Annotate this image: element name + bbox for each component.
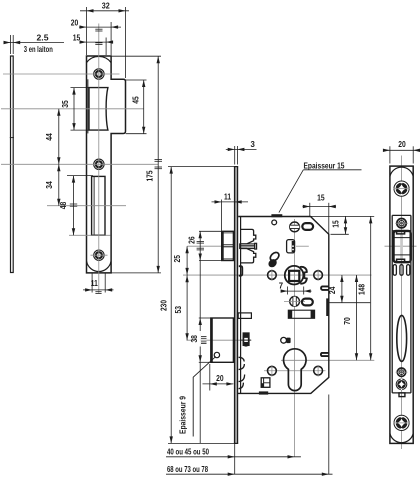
top tab (epaisseur 15 reference) <box>271 214 282 217</box>
faceplate outline <box>390 166 413 443</box>
label Epaisseur 9 with leader <box>178 357 215 437</box>
deadbolt tail parts <box>238 313 251 389</box>
svg-text:25: 25 <box>173 254 182 262</box>
label Epaisseur 15 with leader <box>279 161 362 212</box>
extension line y302.7 <box>329 302 371 304</box>
inner box <box>392 215 411 393</box>
wall slot 1 <box>326 298 329 316</box>
faceplate edge view <box>234 167 238 444</box>
deadbolt head <box>211 318 234 362</box>
slot oval 1 <box>302 223 313 230</box>
strike vertical centerline <box>95 24 102 294</box>
strike plate lip fold line <box>87 79 89 133</box>
wall spring tab <box>239 266 243 276</box>
slot oval 2 <box>302 299 313 306</box>
extension case wall down to bottom dims <box>328 395 330 475</box>
vent slot right <box>407 265 410 276</box>
cam pin (circle + block) <box>281 337 291 343</box>
dimension 7 (follower square) <box>279 282 312 295</box>
deadbolt axis (case) <box>187 337 252 344</box>
dimension 70 <box>343 275 358 360</box>
bottom tab <box>259 391 268 394</box>
dimension 2.5 (side plate thickness) <box>4 33 65 54</box>
extension line plate bottom right <box>112 272 162 274</box>
svg-text:40 ou 45 ou 50: 40 ou 45 ou 50 <box>167 448 210 457</box>
svg-text:15: 15 <box>73 33 81 42</box>
lock case body outline <box>238 217 329 394</box>
dimension 25 and 53 line <box>185 246 188 340</box>
dimension 230 line with 26 and 38 arrows <box>170 167 205 444</box>
dimension 34 <box>45 164 61 205</box>
lock case vertical centerline <box>294 219 296 457</box>
latch axis (case) <box>187 245 416 247</box>
cross-lobe screw <box>396 379 407 390</box>
svg-text:11: 11 <box>224 192 232 201</box>
extension lines latch cutout <box>71 87 90 89</box>
ring screw 2 <box>396 368 408 376</box>
phillips screw bottom <box>394 415 410 430</box>
pin below tab <box>272 220 277 225</box>
euro cylinder hole <box>284 349 307 391</box>
dimension 3 (faceplate thickness) <box>226 140 257 164</box>
bottom tab (front view) <box>399 393 405 397</box>
extension line chamfer bottom <box>331 233 349 235</box>
axis line middle hole <box>1 163 158 165</box>
svg-text:3 en laiton: 3 en laiton <box>24 45 53 54</box>
svg-text:70: 70 <box>343 317 352 325</box>
deadbolt rivet circle (leader end) <box>214 352 219 357</box>
extension lines latch head (26) <box>199 230 222 232</box>
extension faceplate down to bottom dims <box>234 443 236 474</box>
latch cutout with curved lead-in <box>89 88 108 131</box>
screw hole middle <box>94 159 104 169</box>
vent slot left <box>393 265 396 276</box>
dimension 68 ou 73 ou 78 (total depth) <box>166 465 333 476</box>
svg-text:35: 35 <box>61 100 70 108</box>
faceplate top dome <box>390 167 413 176</box>
svg-text:11: 11 <box>91 279 99 288</box>
svg-text:24: 24 <box>328 286 337 294</box>
spring pin (comma) <box>267 251 281 269</box>
dimension 11 (latch projection) <box>212 192 249 230</box>
dimension 15 (chamfer vertical) <box>332 216 348 234</box>
latch bolt head <box>222 231 234 260</box>
latch bolt front view <box>394 231 411 262</box>
svg-text:175: 175 <box>145 170 154 182</box>
ring screw (latch fixing) <box>395 219 408 228</box>
small guide rectangle <box>287 240 295 253</box>
dimension 175 (strike height) <box>145 56 162 273</box>
wall slot stadium mid <box>321 286 329 290</box>
strike plate bottom dome arc <box>87 261 111 271</box>
cylinder screw right <box>314 366 323 375</box>
extension line deadbolt cutout top <box>67 175 93 177</box>
extension line case top right <box>311 215 374 217</box>
cylinder screw left <box>268 366 277 375</box>
extension lines deadbolt (38) <box>199 317 212 319</box>
extension line faceplate top left <box>168 166 234 168</box>
bottom-left guide box <box>261 378 270 388</box>
dimension 15 (chamfer horizontal) <box>303 194 337 235</box>
dimension 20 (strike width) <box>71 18 121 55</box>
screw hole top <box>94 69 104 79</box>
wall slot stadium lower <box>321 353 329 356</box>
dimension 11 (strike bottom cutout offset) <box>83 274 114 294</box>
axis line screw hole top <box>3 73 120 75</box>
dimension 20 (deadbolt projection) <box>203 364 234 391</box>
svg-text:34: 34 <box>45 181 54 189</box>
svg-text:2.5: 2.5 <box>37 33 50 42</box>
extension line plate top right <box>112 55 162 57</box>
axis line deadbolt (strike) <box>47 205 126 207</box>
deadbolt cutout <box>92 176 105 235</box>
dimension 15 (strike) <box>73 33 113 55</box>
follower (handle hub) <box>285 266 307 285</box>
svg-text:48: 48 <box>59 201 68 209</box>
svg-text:26: 26 <box>187 236 196 244</box>
fixing hole left of follower <box>268 269 277 281</box>
gear rack bar <box>288 310 314 318</box>
svg-text:230: 230 <box>160 299 169 311</box>
extension line cutout bottom edge <box>69 234 111 236</box>
faceplate bottom dome <box>390 433 413 442</box>
axis line latch (strike) <box>1 108 144 110</box>
svg-text:148: 148 <box>357 283 366 295</box>
dimension 44 <box>45 109 61 165</box>
dimension 20 (faceplate width) <box>383 140 420 164</box>
svg-text:53: 53 <box>174 305 183 313</box>
phillips screw top <box>394 181 410 196</box>
dimension 40 ou 45 ou 50 (backset) <box>166 448 301 459</box>
extension lines lip (45) <box>126 79 147 81</box>
cylinder screws axis <box>264 370 326 372</box>
dimension 148 <box>357 216 372 360</box>
extension line faceplate bottom left <box>168 442 234 444</box>
lock case left wall <box>240 217 242 394</box>
dimension 32 <box>80 2 129 78</box>
text 38 <box>190 331 201 347</box>
vent slot middle <box>400 265 403 276</box>
svg-text:32: 32 <box>102 2 111 11</box>
fixing hole right of follower <box>314 269 323 281</box>
dimension 45 (lip height) <box>132 80 146 134</box>
svg-text:44: 44 <box>45 133 54 141</box>
faceplate centerline <box>401 156 403 450</box>
deadbolt oval slot <box>397 315 407 361</box>
dimension 48 (deadbolt cutout) <box>59 176 77 236</box>
svg-text:20: 20 <box>71 18 79 27</box>
svg-text:45: 45 <box>132 96 141 104</box>
spring capsule <box>241 334 251 346</box>
strike plate top dome arc <box>87 56 111 62</box>
screw post 1 <box>290 222 300 232</box>
svg-text:20: 20 <box>398 140 406 149</box>
screw hole bottom <box>91 250 108 260</box>
strike plate front view outline <box>87 56 126 273</box>
latch spring mechanism <box>240 229 257 263</box>
screw post 2 <box>284 297 305 307</box>
svg-text:Epaisseur 9: Epaisseur 9 <box>178 395 187 434</box>
follower axis <box>183 274 372 276</box>
svg-text:15: 15 <box>332 220 341 228</box>
svg-text:68 ou 73 ou 78: 68 ou 73 ou 78 <box>167 465 209 474</box>
svg-text:Epaisseur 15: Epaisseur 15 <box>304 161 346 170</box>
svg-text:3: 3 <box>251 140 256 149</box>
deadbolt cutout inner line <box>93 176 95 235</box>
cylinder axis <box>281 359 374 361</box>
strike plate side view (edge-on, 2.5 thick) <box>10 56 14 273</box>
svg-text:38: 38 <box>190 334 199 342</box>
dimension 35 (latch cutout height) <box>61 88 76 131</box>
svg-text:20: 20 <box>216 374 224 383</box>
svg-text:7: 7 <box>279 282 283 291</box>
dimension 24 <box>328 275 343 303</box>
svg-text:15: 15 <box>317 194 325 203</box>
